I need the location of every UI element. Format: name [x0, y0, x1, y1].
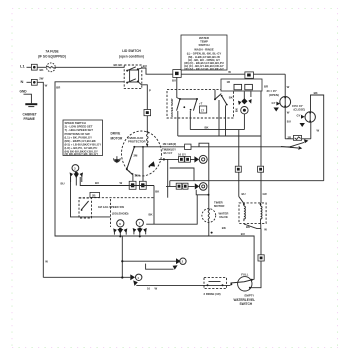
wire BU column to water valve left [235, 130, 245, 197]
water valve right solenoid [260, 203, 262, 221]
svg-text:10: 10 [147, 286, 151, 290]
speed switch dashed linkage line [79, 198, 154, 227]
connector pin 6 circle left [117, 220, 124, 227]
wire BR big loop: top edge, left edge, bottom edge, right drop [55, 82, 254, 280]
drive motor M1 label [111, 132, 124, 141]
svg-text:1R: 1R [227, 80, 231, 84]
wire TH1 down to heater [285, 107, 291, 139]
svg-text:BU: BU [287, 120, 291, 124]
svg-text:BK BK: BK BK [114, 63, 123, 67]
wire pin 6 to timer line [196, 190, 209, 196]
svg-text:SWITCH: SWITCH [240, 302, 253, 306]
svg-text:W: W [155, 286, 158, 290]
svg-text:W: W [45, 84, 48, 88]
bottom wire 2 to pin 2 [121, 258, 186, 264]
node N terminal [21, 79, 38, 85]
svg-text:BK: BK [155, 189, 159, 193]
svg-text:W: W [317, 129, 320, 133]
water valve common wire [244, 221, 267, 231]
svg-text:L1: L1 [20, 64, 25, 69]
wire from winding left down and right [71, 177, 111, 217]
label CABINET FRAME [23, 112, 37, 121]
P rinse resistor dashed box [204, 278, 227, 296]
svg-text:FRAME: FRAME [24, 117, 35, 121]
water valve dashed box [239, 203, 266, 224]
svg-text:BU: BU [143, 64, 147, 68]
connector box on P wire [144, 110, 151, 116]
svg-text:BR: BR [56, 85, 60, 89]
rinse relay box 1R [221, 79, 268, 91]
wires below temp contacts [178, 100, 261, 136]
wire BU drop into temp contacts [172, 77, 180, 99]
svg-text:1BU: 1BU [135, 174, 141, 178]
vertical wire from speed switch area to bottom [121, 236, 123, 279]
svg-text:BU: BU [61, 182, 65, 186]
water temp switch contact dashed box [167, 90, 234, 118]
svg-text:FULL: FULL [241, 273, 248, 277]
svg-text:BK: BK [222, 226, 226, 230]
svg-text:+T: +T [199, 102, 203, 106]
svg-text:2 RINSE (1R): 2 RINSE (1R) [204, 292, 221, 296]
svg-text:WATER TEMP: WATER TEMP [170, 98, 174, 117]
timer motor M2 label [214, 200, 224, 207]
svg-text:2R: 2R [288, 135, 292, 139]
svg-text:BK: BK [314, 91, 318, 95]
speed switch legend box [63, 120, 103, 156]
water valve label [219, 212, 229, 220]
junction wire motor right down [168, 159, 194, 197]
svg-text:GR: GR [263, 192, 267, 196]
bottom long wire to water level switch [133, 280, 230, 290]
svg-text:DRIVE: DRIVE [111, 132, 121, 136]
svg-text:(CLOSE): (CLOSE) [294, 108, 306, 112]
svg-text:BK: BK [149, 212, 153, 216]
drive motor M1 dashed circle [122, 131, 162, 176]
svg-text:BK: BK [246, 225, 250, 229]
svg-text:(open condition): (open condition) [119, 54, 144, 58]
svg-text:MOTOR: MOTOR [111, 136, 124, 140]
ground GND [20, 90, 38, 107]
motor connector boxes 2M 2AG [129, 181, 146, 189]
svg-text:LID SWITCH: LID SWITCH [122, 49, 141, 53]
label: 7A FUSE (IF SO EQUIPPED) [38, 50, 66, 59]
wire L1 to fuse, label BK [37, 67, 46, 72]
svg-text:2B: 2B [92, 193, 96, 197]
svg-text:(X) BK-BU/GY-BK, BU,GY: (X) BK-BU/GY-BK, BU,GY [65, 152, 99, 156]
connector pin 3 [72, 165, 79, 172]
wire row2 to pin 6 [166, 183, 207, 191]
connector crown below pin 3 [61, 172, 84, 186]
fuse F1 [47, 63, 56, 72]
svg-text:BU: BU [95, 181, 99, 185]
water temp switch legend box [181, 35, 227, 71]
svg-text:BU: BU [241, 232, 245, 236]
wire N white, down left side to bottom [37, 77, 48, 278]
node L1 terminal [20, 64, 37, 71]
svg-text:W: W [45, 260, 48, 264]
long wire y180.7 across right [170, 181, 324, 187]
wire winding right to motor boxes row [80, 177, 154, 186]
connector pin 7 circle [136, 219, 143, 226]
motor terminal wire right row1, boxes, pin 8 [159, 152, 207, 163]
lid switch S1 label [119, 49, 144, 58]
wire BK right of windings [146, 186, 226, 230]
bottom wire 1 from W line to pin 1 [43, 274, 142, 280]
heater R1 2R [285, 135, 311, 140]
svg-text:GND: GND [20, 90, 28, 94]
connector crown: diamond and pin circle below relay box [234, 91, 251, 129]
svg-text:BK: BK [205, 126, 209, 130]
svg-text:(OPEN): (OPEN) [269, 93, 279, 97]
wire lid switch to thermostat, label BU [142, 64, 286, 74]
connector crown below pin 7 [133, 228, 147, 238]
motor winding arrows right [149, 161, 156, 167]
svg-text:N: N [21, 79, 24, 84]
wire fuse to lid switch, labels BK BK [55, 63, 124, 67]
timer motor M2 [202, 209, 216, 236]
svg-text:PROTECTOR: PROTECTOR [128, 139, 146, 143]
wire valve common down to water level switch empty [250, 229, 261, 288]
svg-text:W: W [264, 227, 267, 231]
motor internal row0 wire [133, 146, 191, 148]
svg-text:BU GY: BU GY [164, 151, 173, 155]
svg-text:17: 17 [201, 108, 205, 112]
wire pin column down to timer motor [199, 143, 209, 210]
motor internal wires down to connector boxes [127, 146, 144, 181]
connector box J2 on BU wire right [245, 72, 254, 78]
svg-text:W: W [287, 110, 290, 114]
wire lid switch lower to motor, label P [142, 85, 152, 132]
bottom wire arrow to pin 2 mate [146, 264, 178, 270]
connector crown below pin 6 [113, 228, 127, 237]
svg-text:(IF SO EQUIPPED): (IF SO EQUIPPED) [38, 55, 66, 59]
svg-text:16 GY: 16 GY [178, 152, 186, 156]
svg-text:2M: 2M [134, 153, 139, 157]
svg-text:GY: GY [297, 114, 301, 118]
svg-text:CABINET: CABINET [23, 112, 37, 116]
svg-text:GY: GY [272, 101, 276, 105]
svg-text:(SOLENOID): (SOLENOID) [112, 211, 129, 215]
wire 2P arrow to heater [191, 139, 309, 150]
motor centrifugal arrow C [114, 156, 121, 163]
svg-text:(W) (H) - BK,GY-BL,BU,BK-GY: (W) (H) - BK,GY-BL,BU,BK-GY [184, 67, 224, 71]
thermostat TH2 155deg close [292, 91, 324, 181]
svg-text:BK: BK [40, 68, 44, 72]
connector box on valve common wire [258, 255, 264, 261]
svg-text:2P: 2P [290, 145, 294, 149]
svg-text:1M 1AG SPEED SW: 1M 1AG SPEED SW [98, 205, 124, 209]
water level switch S3 [230, 273, 255, 306]
svg-text:BK: BK [234, 108, 238, 112]
svg-text:MOTOR: MOTOR [214, 204, 224, 208]
lid switch S1 dashed box with contacts [124, 65, 142, 89]
svg-text:VALVE: VALVE [219, 215, 228, 219]
water valve left solenoid [239, 197, 246, 222]
svg-text:BU: BU [242, 192, 246, 196]
svg-text:BU: BU [172, 78, 176, 82]
svg-text:P: P [149, 88, 151, 92]
motor internal switch blade [126, 147, 134, 170]
motor wire row0 with labels 1M 1BK [162, 142, 191, 155]
svg-text:7A FUSE: 7A FUSE [45, 50, 58, 54]
svg-text:BK: BK [229, 95, 233, 99]
svg-text:BR: BR [264, 85, 268, 89]
label 1M 1AG SPEED SW (SOLENOID) [98, 205, 129, 216]
svg-text:2W: 2W [39, 77, 44, 81]
overload protector inside motor [127, 131, 148, 147]
svg-text:1M 1BK(2): 1M 1BK(2) [163, 142, 177, 146]
connector box on BU wire [173, 70, 181, 78]
speed switch solenoid dashed box [79, 198, 92, 218]
small box 1B left of motor [90, 181, 123, 197]
thermostat TH1 30deg open [228, 70, 290, 111]
svg-text:W: W [120, 181, 123, 185]
svg-text:W: W [287, 85, 290, 89]
svg-text:W: W [228, 70, 231, 74]
wire GR column to water valve [258, 91, 267, 202]
